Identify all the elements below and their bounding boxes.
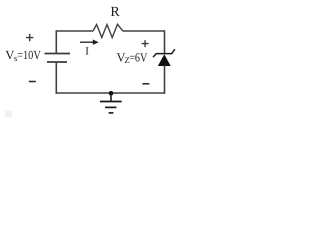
zener diode VZ: [153, 49, 175, 66]
node junction dot on bottom rail: [109, 91, 114, 96]
svg-text:=10V: =10V: [17, 48, 41, 62]
polarity + of source: [26, 34, 33, 41]
label VZ=6V: [117, 50, 148, 65]
voltage source Vs (battery): [45, 54, 71, 63]
resistor R: [93, 24, 123, 37]
ground: [100, 93, 122, 113]
svg-text:R: R: [110, 5, 120, 20]
wire top-right (top rail from resistor to right corner): [123, 30, 165, 32]
svg-text:I: I: [85, 45, 89, 57]
polarity + of zener: [142, 40, 149, 47]
wire bottom (bottom rail): [56, 92, 166, 94]
wire top-left (top rail from left corner to resistor): [56, 30, 93, 32]
label Vs=10V: [5, 48, 40, 63]
current arrow I: [80, 40, 99, 45]
wire left lower (source down to bottom rail): [55, 62, 57, 94]
wire left upper (left rail, corner down to source): [55, 30, 57, 53]
faint artifact bottom-left: [5, 111, 12, 117]
svg-text:=6V: =6V: [129, 50, 147, 64]
wire right upper (right rail, corner down to zener): [164, 30, 166, 53]
wire right lower (zener down to bottom rail): [164, 66, 166, 94]
polarity - of source: [29, 81, 36, 83]
polarity - of zener: [142, 83, 149, 85]
